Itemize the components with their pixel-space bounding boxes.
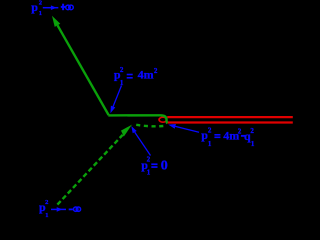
svg-text:2: 2: [208, 126, 212, 134]
svg-text:2: 2: [39, 0, 42, 6]
svg-text:0: 0: [161, 159, 168, 174]
svg-text:1: 1: [147, 169, 151, 177]
svg-text:2: 2: [250, 127, 254, 135]
svg-text:1: 1: [39, 10, 42, 17]
svg-text:4m: 4m: [138, 68, 154, 82]
svg-text:1: 1: [120, 79, 124, 87]
svg-text:4m: 4m: [223, 129, 239, 143]
svg-text:p: p: [31, 0, 38, 14]
svg-text:2: 2: [238, 128, 242, 136]
svg-text:1: 1: [251, 140, 255, 148]
svg-text:2: 2: [154, 67, 158, 75]
svg-text:1: 1: [208, 140, 212, 148]
svg-text:2: 2: [120, 66, 124, 74]
svg-text:2: 2: [45, 199, 48, 206]
svg-text:2: 2: [147, 156, 151, 164]
svg-text:1: 1: [45, 212, 48, 219]
